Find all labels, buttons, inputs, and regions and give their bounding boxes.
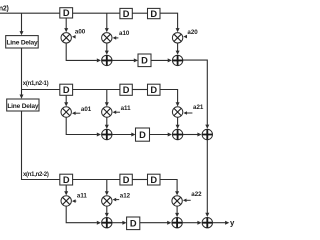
svg-text:a21: a21 — [193, 104, 204, 111]
adder row1 first — [102, 55, 112, 65]
wire row3 D2 to D3 — [132, 179, 147, 181]
multiplier a20 — [172, 33, 182, 43]
svg-text:a11: a11 — [77, 193, 88, 200]
multiplier a12 — [102, 196, 112, 206]
adder row1 second — [172, 55, 182, 65]
delay D row1 accumulator — [138, 54, 151, 67]
wire row1 adder1 to delay — [112, 59, 134, 61]
multiplier a10 — [102, 33, 112, 43]
svg-text:Line Delay: Line Delay — [7, 103, 39, 110]
wire a10 output down to row1 adder1 — [106, 43, 108, 51]
wire row2 tap down to a11 multiplier — [106, 90, 108, 104]
svg-text:D: D — [150, 9, 157, 19]
wire row2 D1 to D2 — [73, 89, 120, 91]
svg-text:a11: a11 — [121, 105, 132, 112]
wire input tap down to line delay 1 — [21, 13, 23, 31]
wire row1 tap down to a10 multiplier — [106, 13, 108, 29]
multiplier a21 — [172, 107, 182, 117]
delay D row2 accumulator — [136, 128, 150, 141]
wire LD1 to row2 junction and LD2 — [21, 48, 23, 95]
wire row2 output down to row3 adder3 — [206, 140, 208, 214]
adder row2 third (cascade) — [202, 129, 212, 139]
delay D row1 second — [120, 8, 132, 18]
wire row3 adder1 to delay — [112, 222, 123, 224]
svg-text:D: D — [139, 130, 146, 140]
svg-text:x(n1,n2): x(n1,n2) — [0, 5, 9, 12]
multiplier a01 — [61, 107, 71, 117]
delay D row1 third — [148, 8, 161, 18]
line delay LD1 — [6, 36, 39, 48]
wire a11 output down to row2 adder1 — [106, 117, 108, 125]
multiplier a22 — [172, 196, 182, 206]
wire a02 output corner to row3 adder1 — [66, 206, 97, 223]
wire a00 output corner to row1 adder1 — [66, 43, 97, 60]
wire input horizontal — [0, 12, 60, 14]
svg-text:D: D — [150, 85, 157, 95]
adder row3 first — [102, 218, 112, 228]
wire a22 output down to row3 adder2 — [176, 206, 178, 214]
wire row3 D3 corner down to a22 multiplier — [160, 180, 177, 193]
wire row3 adder2 to adder3 — [182, 222, 198, 224]
wire a21 output down to row2 adder2 — [177, 117, 179, 125]
svg-text:D: D — [123, 9, 130, 19]
svg-text:Line Delay: Line Delay — [6, 40, 38, 47]
wire a12 output down to row3 adder1 — [106, 206, 108, 214]
svg-text:D: D — [123, 175, 130, 185]
delay D row3 first — [60, 174, 73, 185]
svg-text:a10: a10 — [119, 30, 130, 37]
wire row2 from input column to D1 — [22, 89, 60, 91]
svg-text:D: D — [130, 219, 137, 229]
wire row1 output corner down to row2 adder3 — [183, 60, 207, 125]
svg-text:a00: a00 — [75, 29, 86, 36]
svg-text:D: D — [141, 56, 148, 66]
wire row1 D1 to D2 — [73, 12, 120, 14]
adder row2 second — [172, 129, 182, 139]
svg-text:D: D — [63, 85, 70, 95]
wire row2 adder1 to delay — [112, 134, 132, 136]
delay D row2 first — [60, 84, 73, 95]
wire row1 D2 to D3 — [132, 12, 147, 14]
multiplier a02 — [61, 196, 71, 206]
wire row1 accumulator delay to adder2 — [151, 59, 168, 61]
svg-text:D: D — [150, 175, 157, 185]
multiplier a00 — [61, 33, 71, 43]
wire row2 D1 down to a01 multiplier — [65, 95, 67, 103]
wire row3 D1 to D2 — [73, 179, 120, 181]
adder row3 second — [172, 218, 182, 228]
svg-text:x(n1,n2-1): x(n1,n2-1) — [23, 81, 49, 87]
wire row2 D3 corner down to a21 multiplier — [160, 90, 178, 104]
adder row2 first — [102, 129, 112, 139]
wire a01 output corner to row2 adder1 — [66, 117, 97, 134]
svg-text:D: D — [123, 85, 130, 95]
delay D row3 accumulator — [127, 217, 140, 230]
svg-text:a12: a12 — [120, 193, 131, 200]
svg-text:a22: a22 — [191, 191, 202, 198]
delay D row2 third — [148, 84, 161, 95]
svg-text:x(n1,n2-2): x(n1,n2-2) — [23, 172, 49, 178]
svg-text:D: D — [63, 8, 70, 18]
delay D row1 first — [60, 8, 73, 18]
wire row2 D2 to D3 — [132, 89, 147, 91]
delay D row3 third — [148, 174, 161, 185]
svg-text:D: D — [63, 175, 70, 185]
wire row1 D1 down to a00 multiplier — [65, 18, 67, 29]
svg-text:a01: a01 — [81, 106, 92, 113]
line delay LD2 — [7, 99, 39, 111]
wire row3 tap down to a12 multiplier — [106, 180, 108, 192]
wire a20 output down to row1 adder2 — [177, 43, 179, 51]
delay D row3 second — [120, 174, 132, 185]
adder row3 third (cascade, output) — [202, 218, 212, 228]
delay D row2 second — [120, 84, 132, 95]
wire row1 D3 corner down to a20 multiplier — [160, 13, 178, 29]
wire output to y — [213, 222, 226, 224]
svg-text:y: y — [230, 219, 235, 228]
wire row2 accumulator delay to adder2 — [150, 134, 169, 136]
wire LD2 down and corner to row 3 — [22, 111, 60, 180]
wire row2 adder2 to adder3 — [183, 134, 198, 136]
svg-text:a20: a20 — [187, 29, 198, 36]
multiplier a11 — [102, 107, 112, 117]
wire row3 D1 down to a02 multiplier — [65, 185, 67, 192]
wire row3 accumulator delay to adder2 — [140, 222, 168, 224]
